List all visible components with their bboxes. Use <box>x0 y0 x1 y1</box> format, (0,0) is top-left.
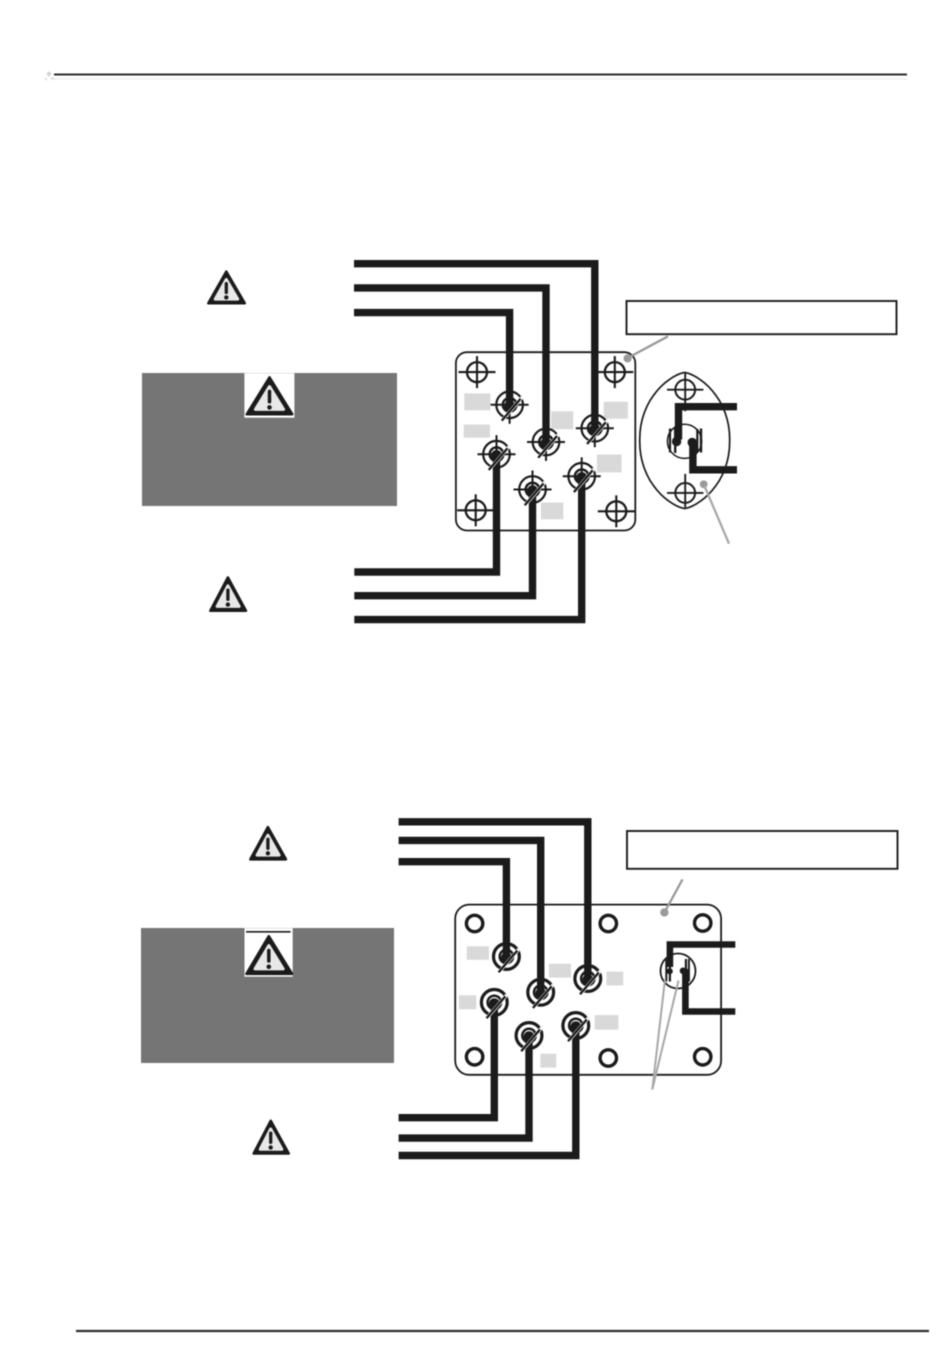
screw slot of terminal X <box>489 447 509 470</box>
mounting hole 4 <box>466 1049 482 1065</box>
warning symbol inside caution panel 2 <box>247 936 293 974</box>
warning symbol (upper feed wires) <box>208 272 244 304</box>
protector lug terminal blob right <box>688 438 697 447</box>
overload protector outline <box>640 373 730 509</box>
wire M4 (terminal P to lower feed) <box>399 1002 495 1117</box>
screw slot of terminal U <box>502 397 522 420</box>
screw slot of terminal O <box>568 1018 588 1041</box>
wire M6 (terminal O to lower feed) <box>399 1026 576 1156</box>
protector circle (lower diagram) <box>661 954 696 989</box>
screw slot of terminal W <box>587 421 607 444</box>
mounting screw top-right <box>596 356 633 388</box>
terminal U (upper-left bolt) <box>491 386 529 424</box>
mounting screw bottom-left <box>457 494 494 526</box>
label pad 3 <box>551 411 573 429</box>
terminal block body (upper diagram) <box>456 352 635 530</box>
wire L3 (top feed to terminal U) <box>354 313 510 405</box>
caution panel white tab 2 <box>245 928 293 977</box>
wire L5 (terminal Y to lower feed) <box>354 490 532 596</box>
protector lug left <box>670 428 675 453</box>
protector bottom jumper (lower diagram) <box>685 969 735 1012</box>
warning symbol inside caution panel 1 <box>247 377 292 414</box>
mounting screw bottom-right <box>598 495 635 527</box>
terminal Z (lower-right bolt) <box>563 457 601 495</box>
wire M5 (terminal Q to lower feed) <box>399 1036 529 1139</box>
leader line to plate (lower) <box>666 879 683 910</box>
label pad 5 <box>597 455 622 473</box>
leader dot on block corner <box>624 354 632 362</box>
protector top jumper wire <box>679 407 738 440</box>
caution panel (gray box, upper diagram) <box>142 373 397 506</box>
mounting screw top-left <box>459 356 496 388</box>
header left smudge <box>45 72 55 81</box>
terminal T (upper-right bolt, lower diagram) <box>575 966 601 992</box>
terminal O (lower-right bolt, lower diagram) <box>563 1013 589 1039</box>
screw slot of terminal V <box>538 435 558 458</box>
label pad 1 <box>464 393 490 410</box>
protector screw bottom <box>667 474 703 508</box>
terminal plate body (lower diagram) <box>455 905 721 1075</box>
wire L2 (top feed to terminal V) <box>354 288 546 442</box>
label pad 4 <box>604 402 628 419</box>
caution panel tab top line <box>246 931 291 933</box>
mounting hole 6 <box>695 1049 711 1065</box>
protector lug left (lower) <box>666 960 670 982</box>
protector screw top <box>667 373 703 412</box>
wire L1 (top feed to terminal W) <box>354 264 595 429</box>
lug blob right (lower) <box>680 968 687 975</box>
leader line to terminal block corner <box>629 336 669 357</box>
label pad 9 <box>606 972 623 986</box>
label pad 7 <box>467 946 489 960</box>
screw slot of terminal R <box>499 949 519 972</box>
terminal Y (lower-middle bolt) <box>514 471 552 509</box>
label pad 11 <box>595 1015 619 1030</box>
wire M2 (top feed to terminal S) <box>399 840 541 992</box>
wire L4 (terminal X to lower feed) <box>354 454 496 572</box>
label pad 12 <box>540 1054 556 1068</box>
label pad 10 <box>459 995 476 1009</box>
protector leader dot <box>700 480 708 488</box>
warning symbol (lower feed wires, lower diagram) <box>254 1121 289 1154</box>
mounting hole 5 <box>600 1050 616 1066</box>
mounting hole 2 <box>600 915 616 931</box>
terminal S (centre bolt, lower diagram) <box>528 979 554 1005</box>
label pad 8 <box>549 964 571 978</box>
screw slot of terminal Y <box>525 482 545 505</box>
leader dot on plate (lower) <box>660 908 668 916</box>
mounting hole 3 <box>695 915 711 931</box>
header rule shadow <box>54 78 907 80</box>
callout box (lower diagram) <box>627 831 898 869</box>
terminal P (lower-left bolt, lower diagram) <box>481 990 507 1016</box>
protector leader line <box>705 486 730 544</box>
protector bottom jumper wire <box>693 443 737 470</box>
leader V line to right lug <box>652 981 678 1090</box>
terminal V (centre bolt) <box>527 423 565 461</box>
mounting hole 1 <box>466 915 482 931</box>
callout box (upper diagram) <box>627 301 897 334</box>
label pad 2 <box>464 425 490 438</box>
leader V line to left lug <box>652 980 665 1090</box>
protector lug right (lower) <box>686 959 689 982</box>
screw slot of terminal Z <box>574 469 594 492</box>
screw slot of terminal S <box>533 985 553 1008</box>
protector lug right <box>697 429 701 453</box>
protector centre disc <box>667 424 701 458</box>
caution panel (gray box, lower diagram) <box>141 928 394 1063</box>
terminal X (lower-left bolt) <box>478 435 516 473</box>
terminal W (upper-right bolt) <box>576 409 614 447</box>
wire L6 (terminal Z to lower feed) <box>354 476 581 619</box>
warning symbol (upper feed wires, lower diagram) <box>250 827 286 859</box>
lug blob left (lower) <box>667 968 673 974</box>
wire M3 (top feed to terminal R) <box>399 862 507 957</box>
footer rule <box>76 1330 929 1332</box>
label pad 6 <box>541 503 563 520</box>
screw slot of terminal Q <box>521 1028 541 1051</box>
header rule <box>54 74 907 76</box>
screw slot of terminal P <box>487 995 507 1018</box>
caution panel white tab <box>244 373 294 418</box>
protector lug terminal blob left <box>672 437 681 446</box>
protector top jumper (lower diagram) <box>670 945 735 968</box>
wire M1 (top feed to terminal T) <box>399 822 588 979</box>
terminal Q (lower-middle bolt, lower diagram) <box>516 1023 542 1049</box>
screw slot of terminal T <box>580 971 600 994</box>
terminal R (upper-left bolt, lower diagram) <box>494 944 520 970</box>
warning symbol (lower feed wires) <box>210 578 246 611</box>
